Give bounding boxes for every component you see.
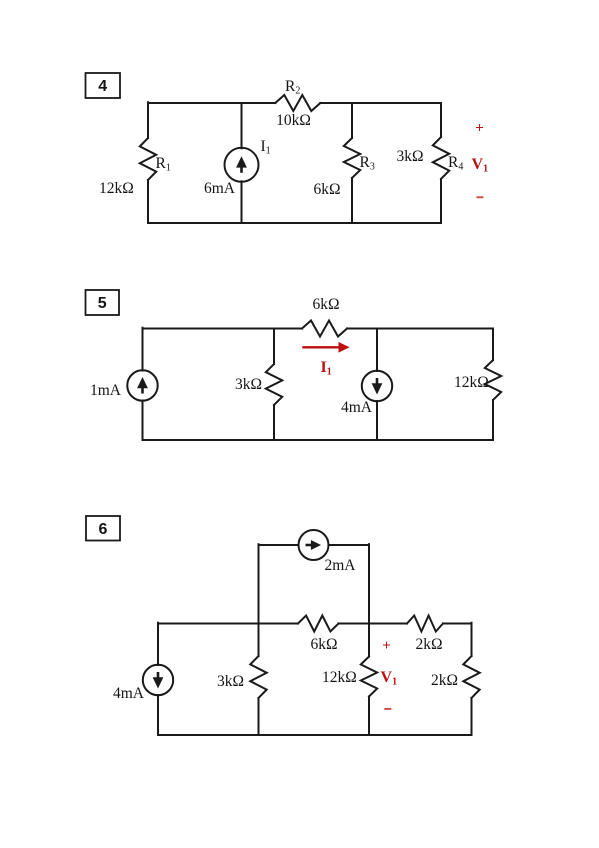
svg-text:12kΩ: 12kΩ <box>454 374 489 391</box>
svg-text:3kΩ: 3kΩ <box>396 148 423 165</box>
svg-text:12kΩ: 12kΩ <box>322 669 357 686</box>
svg-text:R1: R1 <box>156 155 171 174</box>
resistor 6k ohm (circuit 6) <box>298 616 339 632</box>
wire right branch lower (circuit 6) <box>471 698 473 735</box>
wire R3 branch upper <box>351 103 353 138</box>
wire 12k branch upper (circuit 5) <box>492 329 494 361</box>
current source 4mA (circuit 5) <box>362 371 392 401</box>
wire 2mA loop left vertical <box>258 544 260 623</box>
resistor R4 <box>433 137 449 179</box>
resistor 12k ohm (circuit 5) <box>485 360 501 400</box>
resistor 2k ohm vertical (circuit 6) <box>463 656 479 698</box>
resistor R2 <box>275 95 320 111</box>
wire 4mA branch lower (circuit 5) <box>376 401 378 440</box>
wire left branch lower (circuit 4) <box>147 180 149 223</box>
problem number box 5 <box>86 290 120 315</box>
svg-text:3kΩ: 3kΩ <box>235 376 262 393</box>
wire left branch lower (circuit 6) <box>157 695 159 735</box>
problem number box 6 <box>86 516 120 541</box>
wire left branch lower (circuit 5) <box>142 401 144 441</box>
svg-text:I1: I1 <box>321 359 332 378</box>
current arrow I1 (red, circuit 5) <box>302 346 340 348</box>
resistor 3k ohm (circuit 6) <box>250 656 266 698</box>
wire 12k branch lower (circuit 5) <box>492 400 494 440</box>
wire bottom rail (circuit 6) <box>158 734 472 736</box>
svg-text:R4: R4 <box>448 154 463 173</box>
current source 4mA (circuit 6) <box>143 665 173 695</box>
wire right branch upper (circuit 6) <box>471 623 473 656</box>
svg-text:6mA: 6mA <box>204 180 236 197</box>
wire bottom rail (circuit 4) <box>148 222 441 224</box>
label minus sign of V1 (circuit 6) <box>384 708 391 710</box>
svg-text:4: 4 <box>98 78 107 95</box>
wire R4 branch upper <box>440 103 442 137</box>
svg-text:+: + <box>382 638 391 654</box>
svg-text:I1: I1 <box>261 138 271 157</box>
svg-text:3kΩ: 3kΩ <box>217 673 244 690</box>
svg-text:4mA: 4mA <box>113 685 145 702</box>
svg-text:6kΩ: 6kΩ <box>313 181 340 198</box>
resistor R1 <box>140 138 156 180</box>
svg-text:6: 6 <box>99 521 108 538</box>
wire left branch upper (circuit 5) <box>142 328 144 371</box>
wire current source branch upper (circuit 4) <box>241 103 243 148</box>
svg-text:+: + <box>475 121 484 137</box>
svg-text:2kΩ: 2kΩ <box>431 672 458 689</box>
svg-text:6kΩ: 6kΩ <box>312 296 339 313</box>
svg-text:4mA: 4mA <box>341 399 373 416</box>
resistor R3 <box>344 138 360 178</box>
wire 4mA branch upper (circuit 5) <box>376 329 378 372</box>
resistor 12k ohm (circuit 6) <box>361 657 377 697</box>
wire bottom rail (circuit 5) <box>143 439 494 441</box>
wire middle rail segment 2 (circuit 6) <box>339 623 408 625</box>
wire 2mA loop right vertical <box>368 544 370 623</box>
current source 2mA <box>299 530 329 560</box>
wire 12k branch upper (circuit 6) <box>368 624 370 657</box>
wire 12k branch lower (circuit 6) <box>368 697 370 736</box>
wire top rail right segment (circuit 4) <box>320 102 441 104</box>
svg-text:2mA: 2mA <box>325 557 357 574</box>
svg-text:10kΩ: 10kΩ <box>276 112 311 129</box>
svg-text:6kΩ: 6kΩ <box>310 636 337 653</box>
wire R3 branch lower <box>351 178 353 223</box>
wire 3k branch upper (circuit 5) <box>273 329 275 365</box>
wire 3k branch lower (circuit 5) <box>273 405 275 440</box>
svg-text:R3: R3 <box>360 154 375 173</box>
wire 2mA loop top-left segment <box>259 544 299 546</box>
svg-text:R2: R2 <box>285 78 300 97</box>
wire top rail left segment (circuit 5) <box>143 328 303 330</box>
wire left branch upper (circuit 6) <box>157 623 159 665</box>
resistor 6k ohm (circuit 5 top) <box>302 321 347 337</box>
svg-text:V1: V1 <box>472 156 489 175</box>
wire top rail right segment (circuit 5) <box>347 328 493 330</box>
wire left branch upper (circuit 4) <box>147 102 149 138</box>
svg-text:2kΩ: 2kΩ <box>415 636 442 653</box>
resistor 2k ohm horizontal (circuit 6) <box>407 616 443 632</box>
svg-text:V1: V1 <box>381 669 398 688</box>
wire 2mA loop top-right segment <box>329 544 370 546</box>
svg-text:5: 5 <box>98 295 107 312</box>
wire 3k branch upper (circuit 6) <box>258 624 260 657</box>
wire R4 branch lower <box>440 179 442 223</box>
wire 3k branch lower (circuit 6) <box>258 698 260 735</box>
svg-text:12kΩ: 12kΩ <box>99 180 134 197</box>
label minus sign of V1 (circuit 4) <box>476 196 483 198</box>
problem number box 4 <box>86 73 121 98</box>
current source I1 (6mA) <box>225 148 259 182</box>
wire middle rail segment 1 (circuit 6) <box>158 623 298 625</box>
wire top rail left segment (circuit 4) <box>148 102 275 104</box>
current source 1mA <box>127 370 157 400</box>
resistor 3k ohm (circuit 5) <box>266 364 282 405</box>
wire current source branch lower (circuit 4) <box>241 181 243 223</box>
svg-text:1mA: 1mA <box>90 382 122 399</box>
wire middle rail segment 3 (circuit 6) <box>443 623 472 625</box>
